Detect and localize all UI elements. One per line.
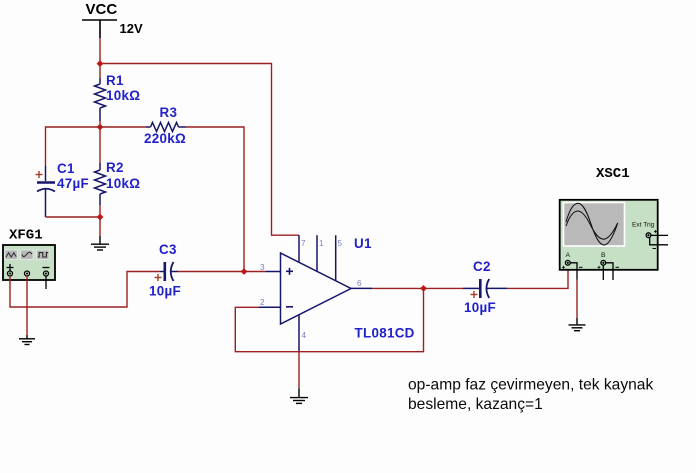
wire node A to R1	[99, 64, 101, 79]
svg-text:A: A	[566, 252, 571, 259]
resistor R2	[95, 163, 106, 205]
ground (below op-amp)	[290, 388, 308, 403]
ground (below R2)	[91, 236, 109, 250]
XFG1 terminal -	[44, 271, 49, 276]
wire XFG1 common to ground	[26, 276, 28, 335]
op-amp U1	[259, 235, 372, 352]
wire pin 6 to node E	[372, 287, 424, 289]
svg-text:Ext Trig: Ext Trig	[632, 222, 655, 229]
junction node E	[420, 285, 427, 292]
svg-text:R3: R3	[160, 105, 178, 120]
svg-text:U1: U1	[354, 236, 372, 251]
svg-text:XFG1: XFG1	[9, 228, 43, 244]
feedback wire node E to pin 2	[235, 288, 423, 351]
svg-text:VCC: VCC	[86, 1, 118, 18]
svg-text:op-amp faz çevirmeyen, tek kay: op-amp faz çevirmeyen, tek kaynak	[408, 377, 653, 394]
wire R3 to node D (op-amp + input)	[186, 127, 244, 272]
wire XFG1 + to C3	[10, 272, 160, 308]
wire pin 4 to ground	[298, 352, 300, 388]
svg-text:47µF: 47µF	[57, 176, 89, 191]
XFG1 minus stub	[45, 276, 47, 289]
resistor R3	[146, 123, 186, 132]
svg-text:4: 4	[302, 331, 307, 340]
svg-text:10µF: 10µF	[464, 300, 496, 315]
wire node A to op-amp pin 7 (VCC rail)	[100, 64, 299, 236]
junction node A	[97, 60, 104, 67]
wire C1 to node C	[46, 216, 101, 218]
svg-text:220kΩ: 220kΩ	[144, 131, 186, 146]
Ext Trig stubs	[651, 234, 668, 236]
svg-text:C1: C1	[57, 161, 75, 176]
terminal A negative stub	[570, 263, 577, 280]
C3 plus mark	[155, 274, 162, 281]
XFG1 minus mark	[43, 267, 50, 269]
wire VCC to node A	[99, 38, 101, 64]
XSC1 screen	[564, 203, 625, 247]
Ext Trig plus mark	[654, 230, 657, 233]
terminal B minus mark	[616, 266, 620, 268]
XFG1 terminal +	[8, 271, 13, 276]
op-amp + input mark	[286, 268, 293, 275]
oscilloscope XSC1	[560, 200, 658, 270]
svg-text:10kΩ: 10kΩ	[106, 176, 140, 191]
XFG1 square-wave button	[37, 250, 50, 260]
junction node C	[97, 214, 104, 221]
svg-text:1: 1	[319, 239, 324, 248]
wire node D to pin 3	[244, 271, 266, 273]
function generator XFG1	[3, 245, 55, 280]
C1 plus mark	[36, 171, 43, 178]
svg-text:R2: R2	[106, 160, 124, 175]
resistor R1	[95, 78, 106, 121]
junction node B	[97, 124, 104, 131]
ground (below scope)	[569, 318, 586, 331]
svg-text:7: 7	[301, 239, 306, 248]
terminal B plus mark	[598, 266, 601, 269]
wire terminal A negative to ground	[576, 280, 578, 319]
wire C3 to node D	[178, 271, 244, 273]
wire R2 to node C	[99, 205, 101, 217]
svg-text:C3: C3	[159, 242, 177, 257]
capacitor C3 (polarized)	[160, 262, 178, 281]
svg-text:R1: R1	[106, 73, 124, 88]
terminal A	[565, 260, 570, 265]
svg-text:10µF: 10µF	[149, 284, 181, 299]
XSC1 screen trace 1	[566, 203, 618, 245]
XFG1 terminal common	[25, 271, 30, 276]
svg-text:2: 2	[260, 298, 265, 307]
wire node B to R3	[100, 126, 146, 128]
terminal A plus mark	[562, 266, 565, 269]
svg-text:5: 5	[338, 239, 343, 248]
wire C2 to scope channel A	[507, 266, 568, 289]
capacitor C1 (polarized)	[37, 166, 55, 217]
XFG1 plus mark	[7, 264, 14, 271]
Ext Trig minus mark	[653, 248, 657, 250]
svg-text:10kΩ: 10kΩ	[106, 88, 140, 103]
svg-text:3: 3	[260, 263, 265, 272]
svg-text:besleme, kazanç=1: besleme, kazanç=1	[408, 396, 543, 413]
svg-text:B: B	[601, 252, 606, 259]
XSC1 screen trace 2	[566, 211, 618, 239]
C2 plus mark	[471, 291, 478, 298]
svg-text:6: 6	[357, 279, 362, 288]
Ext Trig terminal	[646, 233, 651, 238]
op-amp - input mark	[286, 306, 293, 308]
XFG1 triangle-wave button	[5, 250, 17, 260]
wire node E to C2	[424, 287, 464, 289]
wire node B to R2	[99, 127, 101, 163]
wire node C to ground	[99, 217, 101, 236]
svg-text:C2: C2	[473, 259, 491, 274]
XFG1 sine button	[21, 250, 33, 260]
ground (below XFG1)	[19, 335, 35, 345]
svg-text:TL081CD: TL081CD	[355, 326, 415, 341]
junction node D	[241, 268, 248, 275]
terminal B	[601, 260, 606, 265]
wire R1 to node B	[99, 121, 101, 127]
svg-text:XSC1: XSC1	[596, 166, 630, 182]
VCC power symbol	[82, 20, 117, 38]
capacitor C2 (polarized)	[463, 279, 507, 298]
wire node B to C1	[46, 127, 101, 166]
terminal A minus mark	[579, 266, 583, 268]
terminal B stubs	[602, 265, 604, 280]
svg-text:12V: 12V	[120, 21, 143, 36]
